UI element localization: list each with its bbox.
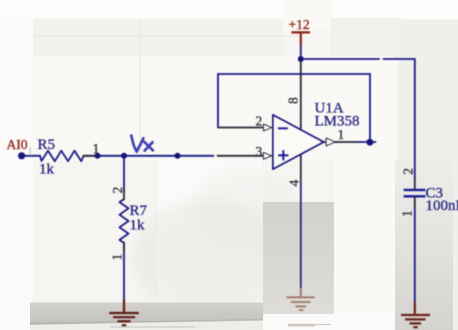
svg-text:2: 2 [110, 187, 125, 194]
svg-text:1: 1 [400, 210, 415, 217]
svg-text:100nF: 100nF [426, 198, 458, 214]
svg-text:1k: 1k [130, 218, 146, 234]
svg-text:1: 1 [110, 254, 125, 261]
svg-text:4: 4 [287, 180, 302, 187]
svg-text:AI0: AI0 [7, 137, 28, 152]
svg-text:2: 2 [400, 168, 415, 175]
svg-text:1k: 1k [39, 162, 55, 178]
svg-text:1: 1 [93, 141, 100, 156]
svg-text:2: 2 [256, 113, 263, 128]
svg-text:R5: R5 [38, 137, 56, 153]
svg-text:8: 8 [286, 97, 301, 104]
svg-text:+12: +12 [289, 17, 310, 32]
svg-text:1: 1 [338, 127, 345, 142]
svg-text:3: 3 [256, 144, 263, 159]
